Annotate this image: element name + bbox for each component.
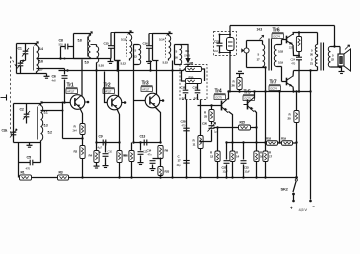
svg-text:4µ7: 4µ7 (98, 146, 103, 150)
svg-text:5.10: 5.10 (99, 64, 105, 68)
svg-text:R8: R8 (190, 61, 194, 65)
svg-text:16: 16 (175, 56, 179, 60)
svg-text:C24: C24 (290, 58, 295, 62)
svg-text:C6: C6 (52, 75, 56, 79)
svg-text:C5: C5 (27, 156, 32, 160)
svg-text:5.11: 5.11 (121, 38, 127, 42)
svg-text:R4: R4 (89, 154, 93, 158)
svg-text:R2: R2 (74, 150, 78, 154)
svg-text:C14: C14 (147, 149, 152, 153)
svg-text:AF117: AF117 (142, 87, 150, 91)
svg-text:R15: R15 (240, 121, 246, 125)
svg-text:R1: R1 (21, 171, 25, 175)
svg-text:5.2: 5.2 (48, 131, 53, 135)
svg-text:OA79: OA79 (184, 53, 191, 57)
svg-text:C2: C2 (20, 108, 24, 112)
svg-text:14.3: 14.3 (257, 28, 263, 32)
svg-text:R18: R18 (266, 137, 271, 141)
svg-text:C2a: C2a (2, 129, 8, 133)
svg-text:C9: C9 (99, 135, 103, 139)
svg-text:C16: C16 (143, 42, 149, 46)
svg-text:C20: C20 (202, 122, 207, 126)
svg-text:5.8: 5.8 (78, 39, 82, 43)
svg-text:C15: C15 (104, 42, 110, 46)
svg-text:SK2: SK2 (281, 187, 289, 192)
svg-text:2k4: 2k4 (73, 129, 78, 133)
svg-text:5.4: 5.4 (39, 47, 44, 51)
svg-text:5.14: 5.14 (159, 38, 165, 42)
svg-text:C28: C28 (181, 120, 186, 124)
svg-text:OC74: OC74 (273, 34, 280, 38)
svg-text:R9: R9 (165, 149, 169, 153)
svg-text:5.18: 5.18 (278, 50, 283, 54)
svg-text:AF117: AF117 (67, 89, 75, 93)
svg-text:R6: R6 (124, 154, 128, 158)
svg-text:K1: K1 (186, 49, 190, 53)
svg-text:C1: C1 (18, 47, 22, 51)
svg-text:5.15: 5.15 (163, 61, 169, 65)
svg-text:R23: R23 (165, 170, 170, 174)
svg-text:R3: R3 (59, 171, 63, 175)
svg-text:470: 470 (26, 167, 31, 171)
svg-text:10µF: 10µF (245, 170, 251, 174)
svg-text:AF117: AF117 (104, 89, 112, 93)
svg-text:4,5 V: 4,5 V (299, 207, 308, 212)
svg-text:R10: R10 (189, 76, 194, 80)
svg-text:+: + (99, 151, 101, 155)
svg-text:C8: C8 (59, 39, 63, 43)
svg-text:5.6: 5.6 (39, 60, 44, 64)
svg-text:5.19: 5.19 (278, 61, 283, 65)
svg-text:C10: C10 (108, 150, 113, 154)
svg-text:OC75: OC75 (215, 95, 222, 99)
svg-text:R19: R19 (281, 137, 286, 141)
svg-text:5.9: 5.9 (85, 61, 89, 65)
svg-text:5.3: 5.3 (44, 124, 48, 128)
svg-text:C13: C13 (140, 135, 146, 139)
svg-text:10µF: 10µF (223, 170, 229, 174)
svg-text:C23: C23 (244, 166, 249, 170)
svg-text:5.12: 5.12 (121, 62, 127, 66)
svg-text:OC74: OC74 (270, 86, 277, 90)
